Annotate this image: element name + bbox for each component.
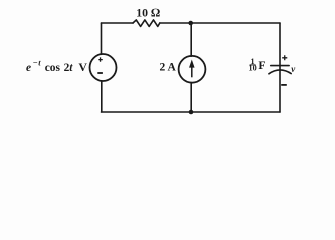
svg-text:e−tcos2tV: e−tcos2tV xyxy=(26,58,87,73)
svg-text:v: v xyxy=(291,64,296,74)
svg-text:10: 10 xyxy=(249,64,257,73)
svg-text:10 Ω: 10 Ω xyxy=(136,5,160,19)
svg-text:F: F xyxy=(258,58,265,72)
svg-text:2 A: 2 A xyxy=(160,62,177,74)
